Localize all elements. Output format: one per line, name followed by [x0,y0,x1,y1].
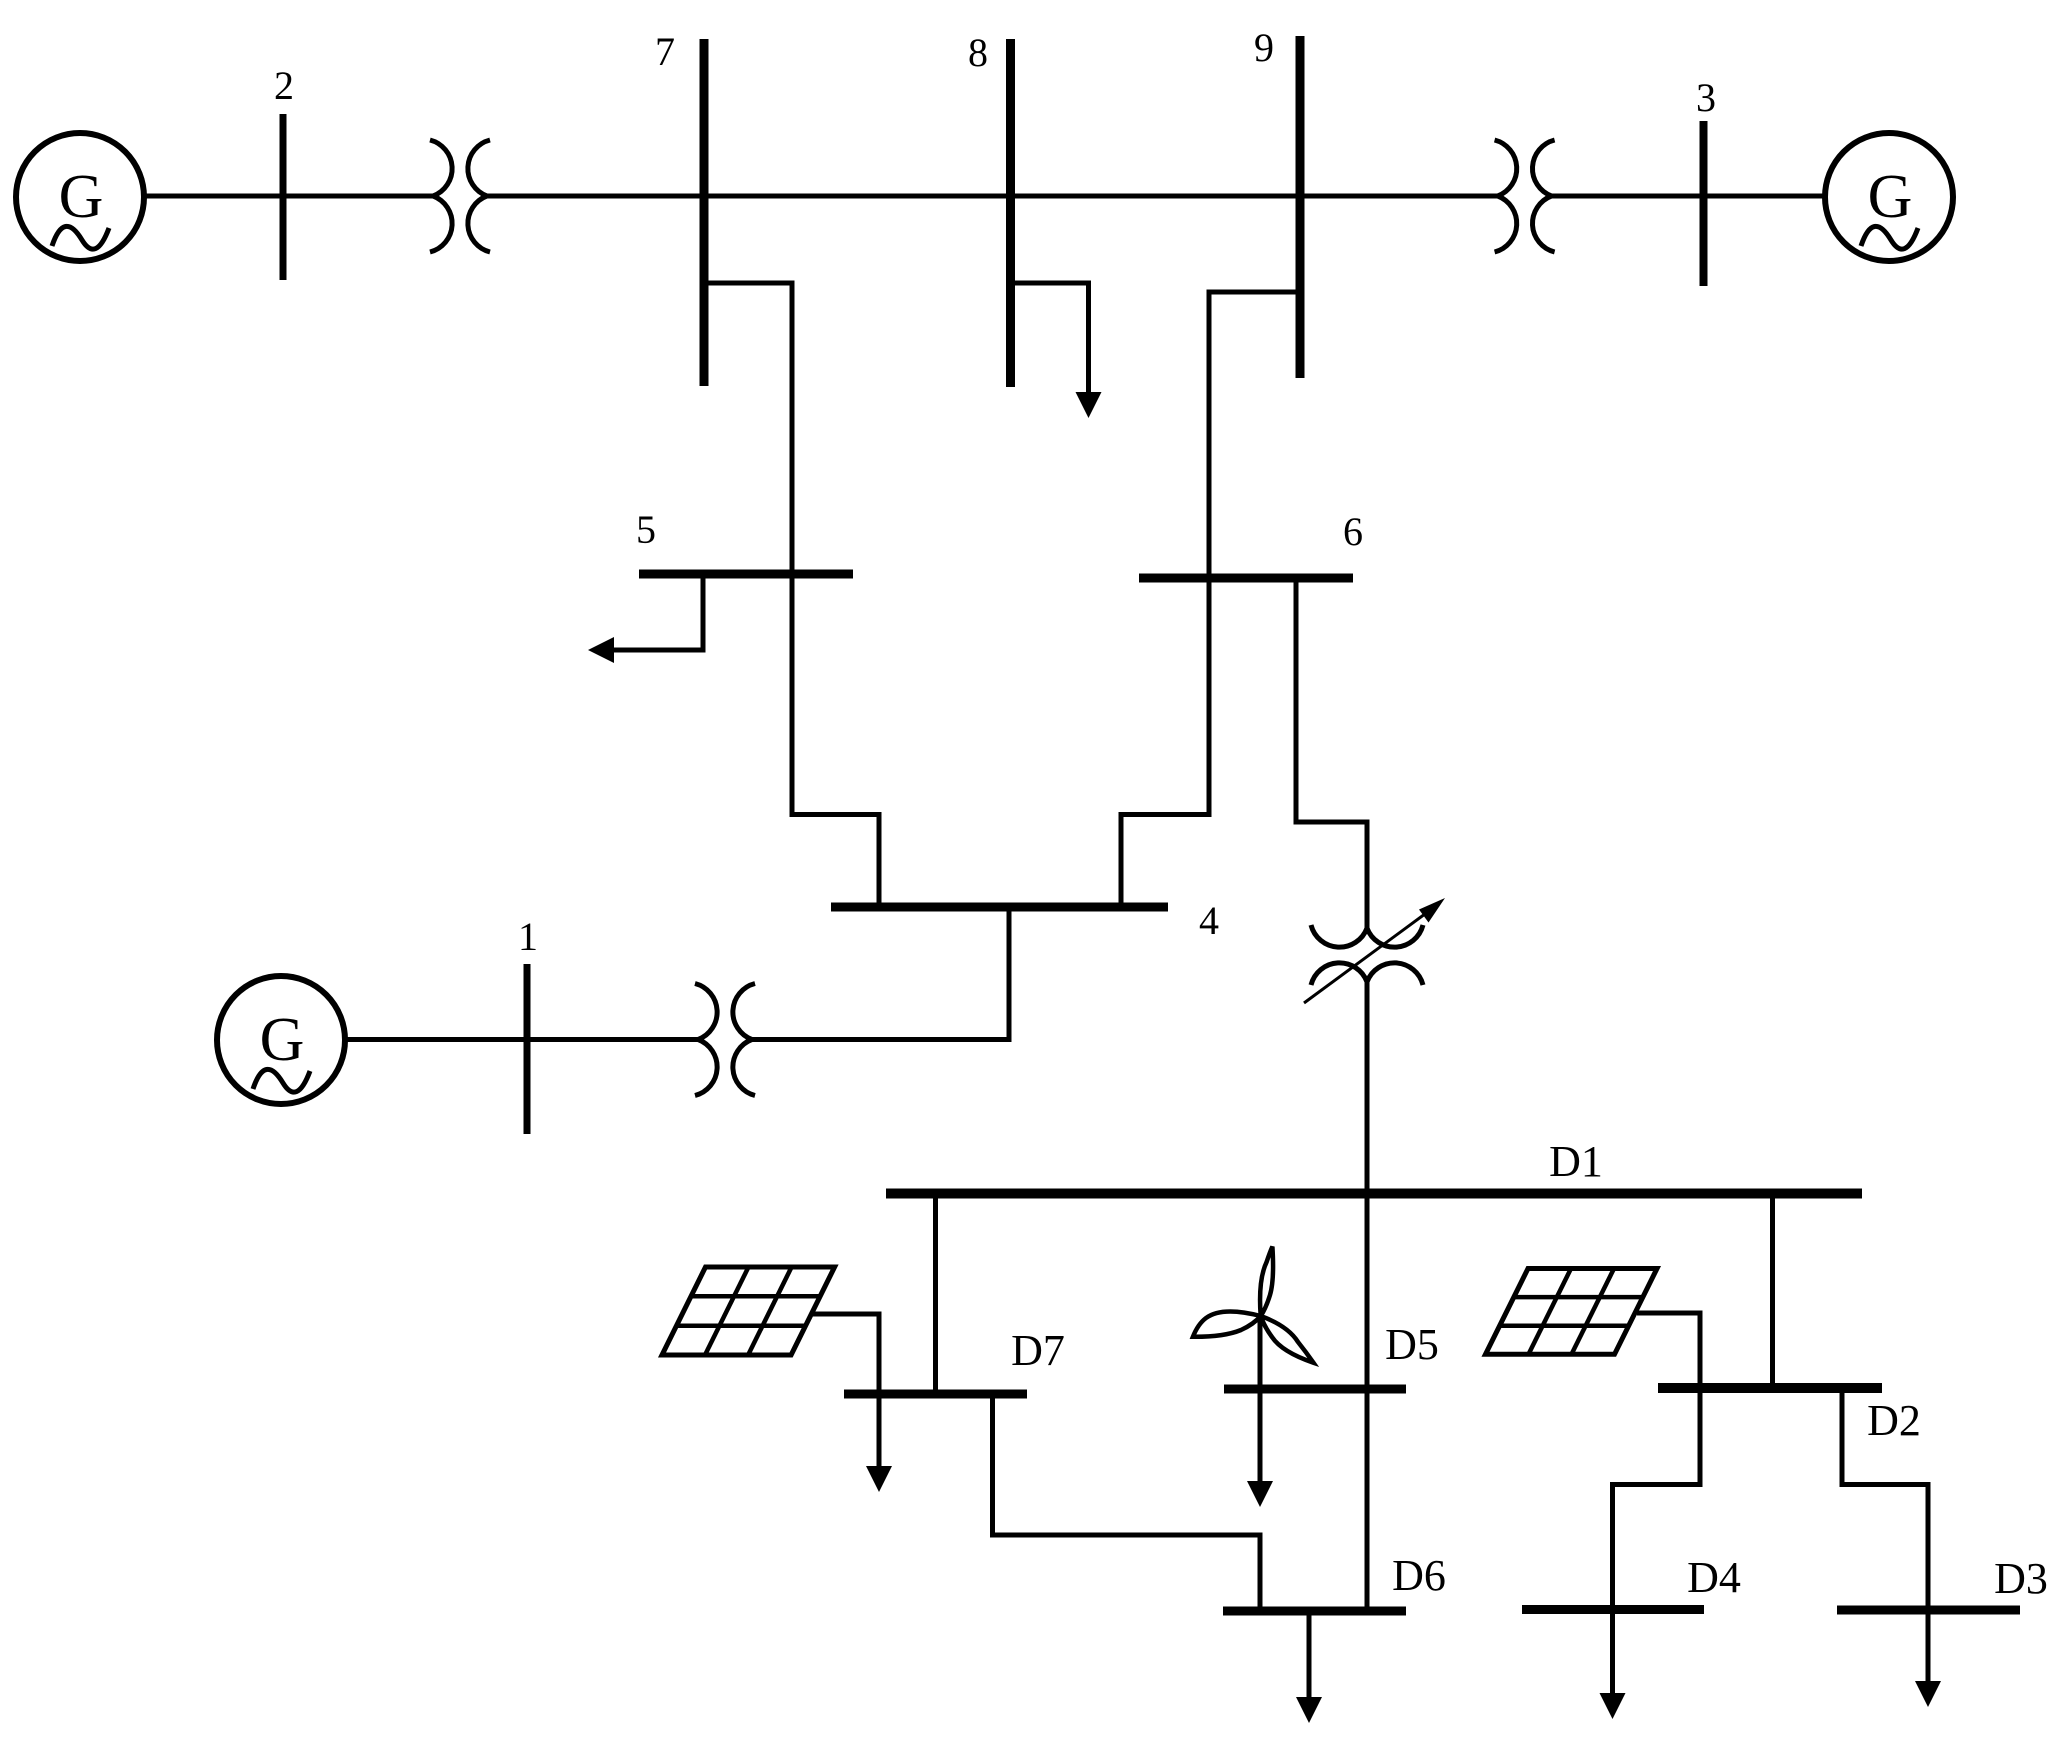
generator G1 circle [217,976,345,1104]
bus 2 [280,114,287,280]
wire bus D2 to bus D3 [1842,1388,1928,1610]
wire line 9-6 lower jog to bus 4 [1121,815,1212,908]
wire transformer T39 to G3 [1551,194,1824,199]
wire PV1 to bus D7 [812,1314,879,1394]
svg-text:D4: D4 [1687,1553,1741,1602]
bus 8 [1006,39,1015,387]
bus 3 [1700,121,1708,286]
wire bus 6 to OLTC transformer [1296,578,1367,928]
svg-text:D3: D3 [1994,1554,2048,1603]
load arrow at bus D3 [1915,1681,1941,1707]
wire line 7-5 lower jog to bus 4 [790,815,880,908]
svg-text:G: G [1868,163,1913,231]
svg-text:D6: D6 [1392,1551,1446,1600]
generator G at bus 3 sine symbol [1861,226,1918,249]
transformer T39 winding right [1532,140,1554,252]
svg-text:G: G [59,163,104,231]
OLTC arrow shaft [1304,911,1429,1003]
transformer T39 winding left [1495,140,1517,252]
svg-text:7: 7 [655,29,675,74]
bus D4 [1522,1605,1704,1614]
generator G1 sine symbol [253,1069,310,1092]
wire bus 9 tap to line 9-6 [1209,292,1300,815]
svg-text:4: 4 [1199,898,1219,943]
bus D6 [1223,1607,1406,1616]
transformer T14 winding right [733,984,755,1096]
bus D7 [844,1390,1027,1399]
svg-text:5: 5 [636,507,656,552]
svg-text:G: G [260,1006,305,1074]
OLTC transformer winding lower [1311,963,1423,985]
svg-text:6: 6 [1343,509,1363,554]
svg-text:2: 2 [274,63,294,108]
load arrow at bus D5 [1247,1481,1273,1507]
wire bus 7 tap to line 7-5 [704,283,792,815]
bus 1 [524,964,531,1134]
load arrow at bus 5 [588,637,614,663]
wire bus D7 to bus D6 [993,1394,1261,1611]
wire OLTC to bus D1 and D5 D6 [1365,982,1370,1611]
load arrow at bus D6 [1296,1697,1322,1723]
wire bus D7 load tap [877,1394,882,1469]
wire bus 4 to transformer T14 [752,907,1009,1040]
OLTC transformer winding upper [1311,925,1423,947]
svg-text:3: 3 [1696,75,1716,120]
solar panel PV2 [1486,1269,1658,1355]
bus 4 [831,903,1168,912]
wire D1 to bus D2 [1770,1194,1775,1389]
svg-text:D7: D7 [1011,1326,1065,1375]
transformer T14 winding left [695,984,717,1096]
solar panel PV1 [662,1267,835,1355]
wire bus 5 load tap [612,574,703,650]
wind turbine mast / load tap at bus D5 [1258,1316,1263,1483]
bus 9 [1296,36,1305,378]
bus 7 [700,39,709,386]
wire bus D2 to bus D4 [1613,1388,1701,1610]
wire D1 to bus D7 [933,1194,938,1395]
svg-text:1: 1 [518,914,538,959]
transformer T27 winding left [430,140,452,252]
wire bus D3 load tap [1926,1610,1931,1683]
generator G2 circle [16,133,144,261]
generator G2 sine symbol [52,226,109,249]
load arrow at bus D4 [1600,1693,1626,1719]
bus D2 [1658,1383,1882,1393]
bus 6 [1139,574,1353,583]
wind turbine WT [1193,1247,1314,1363]
svg-text:D2: D2 [1867,1396,1921,1445]
wire bus 8 load tap [1011,283,1089,394]
load arrow at bus D7 [866,1466,892,1492]
load arrow at bus 8 [1076,392,1102,418]
wire bus D4 load tap [1610,1610,1615,1696]
svg-text:9: 9 [1254,25,1274,70]
svg-text:D1: D1 [1549,1137,1603,1186]
svg-text:D5: D5 [1385,1320,1439,1369]
svg-text:8: 8 [968,30,988,75]
wire line 7-8-9 [487,194,1499,199]
wire G2 to transformer T27 [144,194,434,199]
bus D5 [1224,1385,1406,1394]
wire G1 to transformer T14 [345,1037,698,1042]
bus D1 [886,1189,1862,1199]
bus D3 [1837,1606,2020,1615]
transformer T27 winding right [468,140,490,252]
wire PV2 to bus D2 [1637,1313,1700,1388]
OLTC arrow head [1419,898,1445,923]
wire bus D6 load tap [1307,1611,1312,1699]
bus 5 [639,570,853,579]
generator G at bus 3 circle [1825,133,1953,261]
